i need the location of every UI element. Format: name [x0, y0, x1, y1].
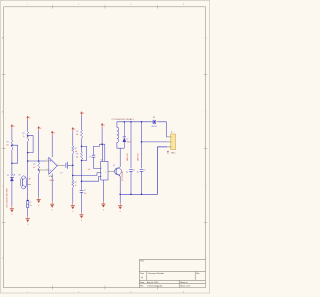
- node R6 top tap: [81, 146, 83, 148]
- power VCC P4: [51, 131, 55, 135]
- svg-text:J?: J?: [171, 132, 173, 134]
- node R2 bottom: [27, 152, 29, 154]
- wire P7 to IC top: [101, 128, 103, 145]
- ground G1: [10, 206, 14, 216]
- svg-text:C?: C?: [30, 202, 32, 204]
- svg-text:5V: 5V: [40, 128, 42, 130]
- svg-text:R?: R?: [22, 133, 24, 135]
- wire R4 down: [72, 154, 74, 181]
- node emitter bus: [119, 194, 121, 196]
- wire contact rail: [117, 121, 153, 123]
- sheet outline: [0, 0, 209, 293]
- wire Q2 collector up: [117, 148, 120, 167]
- wire P6 to R5: [81, 116, 83, 130]
- svg-text:Document Number: Document Number: [148, 272, 164, 275]
- wire R1 wiper bracket: [12, 145, 18, 163]
- node bus1 join: [72, 175, 74, 177]
- node R1 wiper: [11, 144, 13, 146]
- svg-text:File:: File:: [140, 286, 144, 288]
- svg-text:LED1 DIODE-RED-5MM: LED1 DIODE-RED-5MM: [7, 188, 9, 208]
- svg-text:C:\Users\relay.dsn: C:\Users\relay.dsn: [147, 285, 162, 288]
- power VCC P3: [38, 127, 42, 131]
- wire P4 to opamp V+: [51, 135, 53, 157]
- wire R6 down: [81, 160, 83, 189]
- resistor R3: [33, 162, 40, 174]
- wire down to IC top pin A: [102, 144, 104, 161]
- frame zone ticks: [2, 5, 208, 290]
- wire R2 wiper bracket: [28, 136, 33, 153]
- resistor R4: [72, 146, 78, 154]
- label J1 value: [171, 153, 176, 155]
- svg-text:Sheet of: Sheet of: [180, 281, 188, 284]
- wire opamp out to C1: [57, 164, 65, 166]
- svg-text:C?: C?: [133, 170, 135, 172]
- svg-text:104: 104: [84, 193, 87, 195]
- drawing frame border: [4, 7, 206, 288]
- resistor R7: [72, 180, 77, 187]
- wire R7 to ground: [72, 188, 74, 203]
- wire C4 bottom to IC pin: [94, 157, 101, 168]
- ground G3: [37, 197, 41, 207]
- wire R5 to R6: [81, 139, 83, 152]
- svg-text:10k: 10k: [76, 134, 79, 136]
- wire bus2 to IC pin3: [82, 176, 101, 181]
- svg-text:4k7: 4k7: [33, 167, 36, 169]
- svg-text:0: 0: [103, 209, 104, 211]
- svg-text:10u: 10u: [30, 205, 32, 207]
- svg-text:0: 0: [27, 224, 28, 226]
- ground G2: [26, 216, 30, 226]
- svg-text:Rev: Rev: [196, 273, 199, 275]
- wire down to IC top pin B: [104, 144, 106, 161]
- svg-text:R?: R?: [76, 131, 78, 133]
- svg-text:Aug 10, 2019: Aug 10, 2019: [147, 281, 158, 284]
- node Q1 top: [27, 160, 29, 162]
- wire Q2 emitter to ground: [119, 194, 121, 203]
- wire R3 wiper to opamp inv: [39, 169, 49, 171]
- capacitor C3: [80, 190, 87, 195]
- capacitor C1: [60, 162, 67, 175]
- power VCC P2: [27, 116, 31, 120]
- op-amp U1: [46, 156, 58, 182]
- svg-text:C?: C?: [144, 170, 146, 172]
- transistor Q1: [18, 175, 31, 189]
- label C6 value (rotated): [138, 152, 140, 173]
- label relay: [112, 118, 134, 121]
- svg-text:Sheet 1 of 1: Sheet 1 of 1: [180, 285, 190, 288]
- svg-text:C?: C?: [84, 190, 86, 192]
- svg-text:R?: R?: [75, 148, 77, 150]
- wire node to opamp noninv: [28, 160, 49, 162]
- svg-text:LM358: LM358: [49, 180, 54, 182]
- resistor R5: [76, 130, 83, 139]
- wire C4 top bracket: [94, 144, 100, 155]
- title block: [139, 259, 205, 287]
- node R1 bottom: [11, 162, 13, 164]
- svg-text:0: 0: [11, 214, 12, 216]
- power VCC P5: [72, 128, 76, 132]
- label C5 value (rotated): [127, 152, 129, 173]
- wire P5 to R4: [72, 132, 74, 146]
- svg-text:0: 0: [52, 210, 53, 212]
- label Q2 part (rotated): [121, 171, 124, 181]
- node C4 bracket join: [101, 143, 103, 145]
- svg-text:C?: C?: [138, 171, 140, 173]
- wire P1 to R1: [11, 129, 13, 140]
- resistor R6: [76, 152, 83, 161]
- wire LED to ground: [11, 181, 13, 206]
- power VCC P7: [101, 123, 105, 127]
- node A opamp+ net: [38, 160, 40, 162]
- wire bus1 to IC pin2: [73, 173, 101, 176]
- ground G7: [118, 203, 122, 213]
- frame zone labels: [2, 4, 207, 293]
- label LED value (rotated): [7, 188, 9, 208]
- svg-text:U? 25OHM 5VDC RELAY-1: U? 25OHM 5VDC RELAY-1: [112, 118, 134, 121]
- capacitor C6: [140, 122, 146, 195]
- node bus C5: [130, 194, 132, 196]
- svg-text:5V: 5V: [82, 113, 84, 115]
- node C2 top: [27, 200, 29, 202]
- node R2 wiper: [27, 135, 29, 137]
- svg-text:20k: 20k: [76, 157, 79, 159]
- svg-text:5V: 5V: [53, 133, 55, 135]
- flyback diode D2: [123, 122, 132, 148]
- svg-text:0: 0: [38, 205, 39, 207]
- LED D1: [7, 174, 15, 181]
- svg-text:0: 0: [81, 220, 82, 222]
- connector J1: [167, 132, 176, 150]
- svg-text:Title:: Title:: [140, 260, 145, 263]
- ground G8: [101, 201, 105, 211]
- wire C1 to node B: [68, 164, 73, 166]
- wire R1 to LED D1: [11, 150, 13, 176]
- svg-text:0: 0: [120, 211, 121, 213]
- svg-text:1uF: 1uF: [88, 169, 91, 171]
- wire IC gnd pin down: [102, 180, 104, 201]
- transistor Q2: [113, 165, 121, 176]
- wire C6 to connector pin2: [142, 141, 167, 143]
- svg-text:C?: C?: [60, 173, 62, 175]
- node rail C6: [141, 121, 143, 123]
- svg-text:1k: 1k: [23, 136, 25, 138]
- switch B1: [151, 117, 158, 128]
- svg-text:10k: 10k: [6, 144, 9, 146]
- svg-text:D?: D?: [7, 175, 9, 177]
- svg-text:D?: D?: [126, 139, 128, 141]
- svg-text:R?: R?: [7, 141, 9, 143]
- node bus C6: [141, 194, 143, 196]
- node diode rail: [124, 121, 126, 123]
- svg-text:2N?: 2N?: [28, 178, 31, 180]
- svg-text:R?: R?: [76, 154, 78, 156]
- wire C2 to ground: [27, 208, 29, 216]
- IC output pin wire: [108, 170, 115, 172]
- svg-text:U?: U?: [101, 159, 103, 161]
- capacitor C2 polarized: [27, 201, 32, 208]
- wire P3 down: [38, 131, 40, 163]
- power VCC P6: [81, 112, 85, 116]
- node C6 pin2 tap: [141, 141, 143, 143]
- capacitor C5: [129, 122, 135, 195]
- wire IC top bar: [99, 143, 104, 145]
- resistor R1 (pot): [6, 140, 13, 150]
- svg-text:R?: R?: [33, 164, 35, 166]
- svg-text:B?: B?: [153, 117, 155, 119]
- svg-text:KEYS1: KEYS1: [152, 126, 157, 128]
- node B cap join: [72, 165, 74, 167]
- svg-text:Date:: Date:: [140, 281, 145, 284]
- wire P2 to R2: [27, 120, 29, 131]
- no-connect marker: [167, 151, 169, 154]
- IC U2 box: [101, 159, 108, 180]
- wire C3 to ground: [81, 192, 83, 212]
- ground G5: [71, 203, 75, 213]
- wire R2 down main: [27, 142, 29, 201]
- svg-text:5V: 5V: [29, 118, 31, 120]
- wire C3 top stub: [81, 189, 83, 190]
- wire opamp V- to ground: [51, 174, 53, 202]
- svg-text:0: 0: [72, 211, 73, 213]
- svg-text:100uF/25V: 100uF/25V: [138, 152, 140, 161]
- ground G4: [50, 201, 54, 211]
- svg-text:Q?: Q?: [18, 175, 20, 177]
- node R3 wiper: [38, 169, 40, 171]
- svg-text:10k: 10k: [75, 151, 78, 153]
- node bus2 join: [81, 180, 83, 182]
- svg-text:Q?: Q?: [113, 165, 115, 167]
- wire bottom bus: [120, 147, 167, 194]
- ground G6: [79, 212, 83, 222]
- svg-text:R?: R?: [75, 182, 77, 184]
- svg-text:Size: Size: [140, 273, 144, 275]
- svg-text:5V: 5V: [103, 125, 105, 127]
- resistor R2 (pot): [22, 132, 28, 142]
- svg-text:5V: 5V: [13, 126, 15, 128]
- node rail C5: [130, 121, 132, 123]
- wire switch to connector pin1: [158, 122, 167, 137]
- relay coil L1: [117, 122, 119, 148]
- power VCC P1: [11, 125, 15, 129]
- wire Q2 emitter down: [119, 176, 121, 194]
- node R6 bottom: [81, 160, 83, 162]
- svg-text:SSR-1: SSR-1: [171, 153, 176, 155]
- capacitor C4: [88, 155, 96, 171]
- wire diode bottom join: [120, 147, 124, 149]
- svg-text:C?: C?: [127, 171, 129, 173]
- svg-text:100uF/25V: 100uF/25V: [127, 152, 129, 161]
- svg-text:1N4007: 1N4007: [126, 142, 131, 144]
- svg-text:5V: 5V: [74, 129, 76, 131]
- wire R3 to ground: [38, 174, 40, 197]
- svg-text:C?: C?: [89, 157, 91, 159]
- wire R6 bracket: [82, 146, 87, 160]
